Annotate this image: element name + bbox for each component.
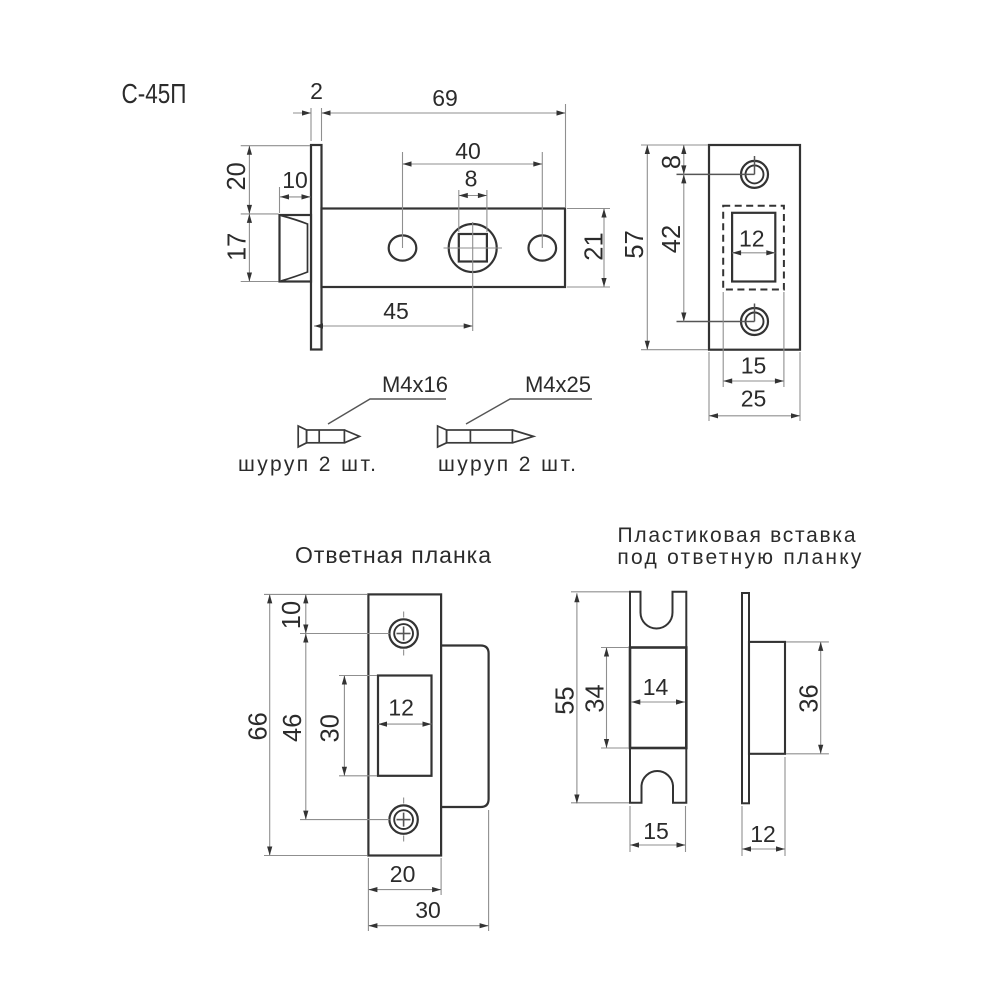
dimension 25 extension lines [708, 352, 710, 421]
strike top hole centreline ticks [403, 612, 405, 618]
latch bolt [280, 215, 312, 282]
dimension 57 [646, 145, 648, 350]
screw M4x25 head-shank divider [469, 430, 471, 443]
strike bottom hole cross [397, 819, 411, 821]
dimension 36 extension lines [786, 641, 829, 643]
leader line M4x25 [466, 399, 592, 424]
dimension 69 [322, 112, 566, 114]
dimension 12 strike [378, 723, 432, 725]
dimension 15 extension lines [722, 292, 724, 387]
leader line M4x16 [328, 399, 446, 424]
dimension 8 extension lines [458, 190, 460, 232]
svg-text:Ответная планка: Ответная планка [295, 542, 491, 568]
dimension 69 extension line right [565, 104, 567, 207]
dimension 21 [603, 209, 605, 288]
centre circle hole [449, 224, 497, 272]
dimension 20 extension lines [241, 145, 310, 147]
dashed insert outline [723, 206, 784, 290]
left oval hole [389, 235, 417, 260]
svg-text:Пластиковая вставка: Пластиковая вставка [618, 524, 856, 547]
svg-text:30: 30 [316, 714, 344, 742]
right hole centreline [541, 152, 543, 248]
strike bottom screw hole [389, 805, 417, 833]
dimension 17 [248, 214, 250, 282]
bolt bevel lines [281, 216, 308, 282]
svg-text:34: 34 [581, 684, 609, 712]
svg-text:M4x25: M4x25 [525, 372, 591, 397]
svg-text:12: 12 [739, 226, 765, 252]
top screw hole [741, 161, 768, 188]
svg-text:15: 15 [741, 353, 767, 379]
svg-text:8: 8 [465, 166, 478, 192]
dimension 40 [403, 163, 543, 165]
strike bottom hole extension line [300, 819, 390, 821]
svg-text:под ответную планку: под ответную планку [617, 546, 862, 569]
dimension 45 [314, 325, 473, 327]
dimension 20 extension lines strike [367, 858, 369, 931]
dimension 8 [459, 195, 487, 197]
rectangular bolt opening [732, 213, 775, 282]
svg-text:шуруп 2 шт.: шуруп 2 шт. [438, 453, 576, 476]
strike top hole cross [397, 633, 411, 635]
svg-text:8: 8 [658, 155, 686, 169]
strike top screw hole [389, 619, 417, 647]
dimension 36 [820, 642, 822, 754]
centreline horizontal through circle [444, 247, 503, 249]
dimension 30 extension lines [339, 675, 377, 677]
svg-text:10: 10 [278, 601, 306, 629]
dimension 2 extension lines [310, 108, 312, 141]
screw M4x16 shank [307, 430, 345, 443]
insert side view flange [742, 593, 749, 803]
svg-text:14: 14 [643, 674, 669, 700]
dimension 55 [576, 593, 578, 803]
svg-text:шуруп 2 шт.: шуруп 2 шт. [238, 453, 376, 476]
strike top hole extension line [300, 633, 390, 635]
dimension 34 [606, 648, 608, 749]
bottom hole centrelines [677, 321, 755, 323]
dimension 14 [631, 701, 685, 703]
svg-text:20: 20 [390, 861, 416, 887]
svg-text:17: 17 [223, 233, 251, 261]
top hole centrelines [677, 173, 755, 175]
dimension 30 bottom [368, 925, 488, 927]
dimension 42 [683, 174, 685, 321]
dimension 8 faceplate [683, 145, 685, 174]
faceplate bar side view [311, 145, 322, 350]
dimension 20 [248, 146, 250, 214]
dimension 55 extension lines [571, 591, 629, 593]
svg-text:57: 57 [621, 230, 649, 258]
svg-text:40: 40 [455, 138, 481, 164]
dimension 25 [709, 415, 800, 417]
dimension 20 strike [368, 889, 441, 891]
dimension 17 extension line bottom [241, 281, 279, 283]
dimension 34 extension lines [601, 647, 629, 649]
screw M4x16 head-shank divider [318, 430, 320, 443]
dimension 15 faceplate [723, 380, 784, 382]
bottom screw hole [741, 308, 768, 335]
insert front view outline [630, 592, 686, 803]
dimension 46 [305, 634, 307, 820]
dimension 21 extension lines [567, 208, 610, 210]
screw M4x16 head [298, 426, 306, 447]
svg-text:45: 45 [383, 298, 409, 324]
svg-text:M4x16: M4x16 [382, 372, 448, 397]
dimension 12 side [742, 848, 785, 850]
strike plate tongue [441, 646, 489, 808]
svg-text:10: 10 [282, 167, 308, 193]
strike plate body [368, 594, 441, 855]
faceplate front view plate [709, 145, 800, 350]
svg-text:30: 30 [415, 897, 441, 923]
dimension 57 extension lines [641, 144, 708, 146]
strike bottom hole centreline ticks [403, 798, 405, 804]
dimension 10 [280, 196, 311, 198]
strike rectangular opening [378, 676, 432, 776]
dimension 66 extension lines [264, 593, 367, 595]
dimension 15 insert extension lines [629, 806, 631, 852]
svg-text:36: 36 [795, 684, 823, 712]
svg-text:15: 15 [643, 818, 669, 844]
svg-text:12: 12 [750, 821, 776, 847]
dimension 10 strike [305, 594, 307, 633]
dimension 12 faceplate [732, 252, 775, 254]
screw M4x25 head [438, 426, 447, 447]
svg-text:66: 66 [244, 712, 272, 740]
svg-text:20: 20 [223, 162, 251, 190]
svg-text:69: 69 [432, 85, 458, 111]
dimension 15 insert [630, 844, 686, 846]
svg-text:2: 2 [310, 78, 323, 104]
screw M4x25 shank [447, 430, 513, 443]
latch body rectangle [322, 209, 566, 288]
svg-text:46: 46 [279, 714, 307, 742]
insert side view block [749, 642, 785, 754]
left hole centreline [402, 152, 404, 248]
screw M4x16 tip [344, 430, 359, 443]
dimension 30 vertical [343, 676, 345, 776]
dimension 10 extension line [279, 187, 281, 213]
right oval hole [529, 235, 557, 260]
dimension 30 extension line right [488, 810, 490, 931]
square spindle hole 8mm [459, 234, 487, 262]
svg-text:12: 12 [388, 695, 414, 721]
dimension 66 [269, 594, 271, 855]
centreline vertical through circle [472, 222, 474, 331]
svg-text:55: 55 [551, 686, 579, 714]
svg-text:25: 25 [741, 386, 767, 412]
screw M4x25 tip [512, 430, 533, 443]
svg-text:С-45П: С-45П [122, 78, 187, 109]
dimension 12 side extension lines [741, 806, 743, 856]
svg-text:42: 42 [658, 225, 686, 253]
dimension 2 [293, 112, 311, 114]
svg-text:21: 21 [580, 232, 608, 260]
insert middle section bold rectangle [630, 648, 686, 749]
